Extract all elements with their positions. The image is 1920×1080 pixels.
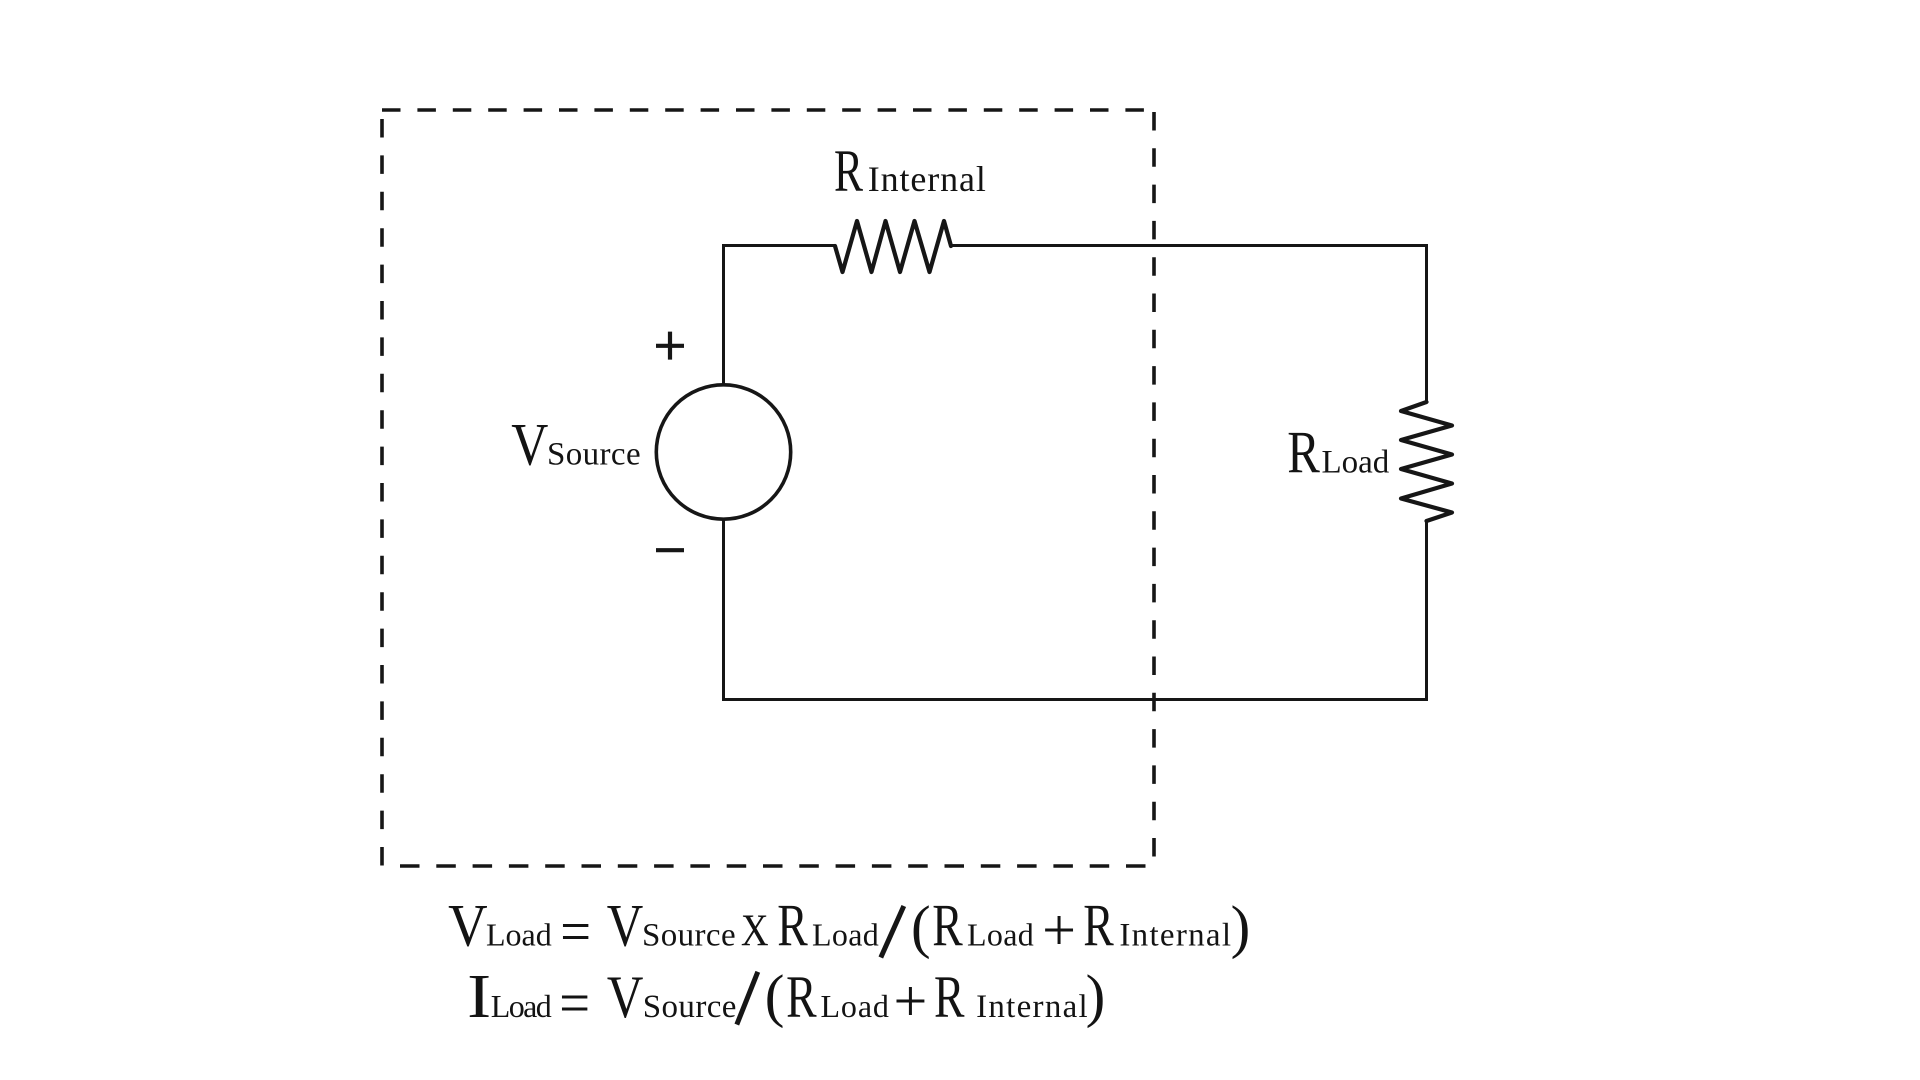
svg-text:Load: Load — [967, 917, 1034, 953]
svg-text:Internal: Internal — [976, 989, 1088, 1025]
svg-text:Load: Load — [1322, 444, 1390, 480]
svg-text:R: R — [777, 893, 808, 959]
svg-text:+: + — [894, 968, 928, 1034]
svg-text:V: V — [511, 411, 548, 477]
svg-text:R: R — [1287, 419, 1320, 485]
svg-text:R: R — [786, 964, 817, 1030]
svg-text:Load: Load — [491, 988, 552, 1024]
svg-text:I: I — [467, 963, 491, 1031]
svg-text:Load: Load — [821, 988, 889, 1024]
polarity plus — [656, 332, 684, 360]
formula 1 fraction slash — [881, 906, 904, 958]
resistor R_Internal (zigzag) — [835, 221, 951, 272]
polarity minus — [656, 548, 684, 552]
svg-text:): ) — [1086, 963, 1106, 1029]
svg-text:X: X — [741, 906, 769, 956]
svg-text:Source: Source — [643, 989, 737, 1025]
wire: right lower lead, bottom segment, source negative lead — [724, 521, 1427, 700]
dashed box right edge — [1152, 112, 1156, 857]
svg-text:R: R — [834, 138, 863, 204]
svg-text:R: R — [1083, 893, 1114, 959]
resistor R_Load (zigzag) — [1401, 402, 1452, 521]
Thevenin equivalent boundary (dashed box) top edge — [382, 108, 1154, 112]
svg-text:R: R — [932, 893, 963, 959]
svg-text:Source: Source — [642, 918, 736, 954]
dashed box bottom edge — [400, 864, 1146, 868]
svg-text:Load: Load — [486, 917, 552, 953]
svg-text:Load: Load — [812, 917, 879, 953]
svg-text:(: ( — [911, 894, 931, 960]
svg-text:R: R — [934, 964, 965, 1030]
svg-text:=: = — [560, 899, 591, 965]
svg-text:V: V — [607, 964, 644, 1030]
svg-text:(: ( — [765, 963, 785, 1029]
dashed box left edge — [380, 119, 384, 866]
formula 2 fraction slash — [737, 972, 758, 1025]
wire: top-right segment and right upper lead — [951, 246, 1427, 403]
svg-text:Internal: Internal — [868, 159, 986, 199]
svg-text:): ) — [1231, 894, 1251, 960]
voltage source V1 (circle) — [656, 385, 790, 519]
svg-text:Internal: Internal — [1119, 918, 1231, 954]
svg-text:V: V — [607, 893, 644, 959]
svg-text:=: = — [559, 970, 590, 1036]
svg-text:+: + — [1042, 897, 1076, 963]
svg-text:Source: Source — [547, 436, 641, 472]
wire: source positive lead and top-left segment — [724, 246, 836, 385]
svg-text:V: V — [448, 893, 488, 959]
